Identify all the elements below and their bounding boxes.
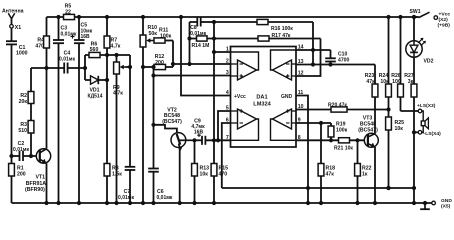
svg-text:4700: 4700 (338, 58, 349, 64)
pin 4 number (226, 90, 229, 96)
svg-text:470: 470 (35, 44, 44, 50)
capacitor C10 4700 (325, 50, 349, 67)
wire bottom ground rail (12, 202, 432, 204)
wire VT2 emitter down (178, 147, 182, 205)
wire R9 wiper to C7 column (126, 65, 133, 69)
pin 14 number (298, 45, 304, 51)
pin 6 number (226, 118, 229, 124)
capacitor C1 1000 (6, 41, 28, 56)
junction detector node y68 (44, 66, 48, 70)
junction R9 top (114, 53, 118, 57)
capacitor C3 0,01мк (53, 15, 77, 43)
svg-text:4,7к: 4,7к (113, 91, 123, 97)
resistor R13 10к (192, 140, 210, 205)
pin 5 number (226, 106, 229, 112)
svg-text:3: 3 (226, 70, 229, 76)
trimmer R9 4,7к (113, 55, 126, 203)
svg-text:–LS(X4): –LS(X4) (423, 131, 442, 137)
label GND pin11 (281, 94, 293, 100)
label +Vcc pin4 (234, 94, 246, 100)
wire VD1 R6 loop left (84, 55, 86, 80)
wire pin 3 net (154, 75, 231, 77)
wire R6 node to R9 (107, 54, 130, 56)
svg-text:7: 7 (226, 135, 229, 141)
junction R19 bottom pin8 line (329, 138, 333, 142)
svg-text:470: 470 (219, 171, 228, 177)
op-amp A3 output route to pin7 (231, 119, 259, 140)
label DA1 LM324 (253, 95, 271, 108)
junction VT1 emitter ground (44, 201, 48, 205)
svg-text:R17 47к: R17 47к (272, 33, 291, 39)
wire R16 right down to pin13 (311, 22, 315, 67)
terminal X1 (10, 25, 22, 31)
svg-text:Антенна: Антенна (2, 9, 24, 15)
svg-text:(BC547): (BC547) (162, 119, 182, 125)
wire C8R14 right column down to pin1 and C9 line (212, 20, 216, 203)
wire C3 to ground rail (56, 43, 60, 205)
junction pin3 column (151, 73, 155, 77)
wire to pin 2 (173, 63, 231, 65)
svg-text:0,01мк: 0,01мк (59, 57, 75, 63)
pin 1 number (226, 47, 229, 53)
wire R26 to +LS X3 (401, 110, 419, 112)
resistor R4 470 (35, 17, 49, 68)
junction VT2 base tap (151, 123, 155, 127)
svg-text:+LS(X3): +LS(X3) (417, 103, 436, 109)
op-amp A4 triangle (273, 109, 297, 129)
resistor R16 100к (214, 19, 313, 32)
junction R9 bottom ground (114, 201, 118, 205)
wire pin 6 L to ground link (222, 123, 231, 188)
resistor R11 100к (154, 28, 172, 44)
wire X1 to C1 (11, 28, 13, 41)
svg-text:GND: GND (441, 198, 452, 204)
svg-text:DA1: DA1 (256, 95, 267, 101)
capacitor C2 0,01мк (13, 141, 29, 161)
resistor R7 4,7к on rail column (104, 15, 121, 203)
terminal X3 +LS (417, 103, 436, 113)
junction C8 left column pin2 (187, 62, 191, 66)
capacitor C4 0,01мк (59, 51, 75, 74)
transistor VT1 BFR91A (25, 149, 51, 193)
svg-text:+Vcc: +Vcc (439, 11, 451, 17)
wire C4 to VD1 node (68, 67, 85, 69)
junction R22 tap (355, 138, 359, 142)
resistor R27 3к (404, 57, 417, 132)
diode VD1 КД514 (85, 76, 107, 100)
transistor VT2 BC548 (162, 108, 194, 152)
svg-text:16В: 16В (194, 130, 204, 136)
resistor R17 47к (214, 33, 321, 41)
terminal X2 +Vcc (434, 11, 450, 28)
svg-text:R14 1М: R14 1М (192, 43, 210, 49)
resistor R14 1М (187, 36, 214, 49)
op-amp A4 output route to pin8 (271, 119, 297, 140)
junction R10 bottom rail (141, 201, 145, 205)
op-amp A1 output route to pin1 (231, 52, 259, 70)
junction pin2 wire corner (171, 62, 175, 66)
svg-text:560: 560 (90, 47, 99, 53)
svg-text:5: 5 (226, 106, 229, 112)
wire +Vcc feed to pin 4 (179, 15, 231, 96)
pin 12 number (298, 71, 304, 77)
wire detector node (31, 67, 64, 69)
resistor R5 22 (64, 4, 75, 20)
svg-text:(+9В): (+9В) (438, 23, 451, 29)
pin 10 number (298, 104, 304, 110)
wire pin 14 net (296, 49, 331, 51)
node Антенна label (2, 9, 24, 15)
op-amp A2 triangle (273, 60, 297, 80)
trimmer R10 50к (140, 15, 157, 203)
svg-text:1к: 1к (362, 171, 368, 177)
svg-text:SW1: SW1 (410, 9, 421, 15)
pin 7 number (226, 135, 229, 141)
speaker LS (421, 111, 428, 132)
svg-text:100к: 100к (336, 127, 348, 133)
svg-text:2: 2 (226, 59, 229, 65)
capacitor C7 0,01мк (118, 167, 135, 205)
resistor R12 200 (143, 54, 173, 70)
wire R11 to R10 wiper arrow (146, 38, 154, 42)
wire pin 5 L (216, 111, 231, 142)
wire pin 10 net (296, 109, 389, 111)
wire R17 right down to pin12 (296, 39, 321, 77)
resistor R15 470 (211, 164, 228, 206)
junction R6 right (105, 53, 109, 57)
junction C9 right R15 tap (212, 138, 216, 142)
op-amp A3 triangle (231, 109, 257, 129)
pin 11 number (298, 90, 304, 96)
svg-text:КД514: КД514 (88, 94, 103, 100)
wire ground link line (222, 186, 414, 190)
capacitor C9 4,7мк 16В (191, 118, 230, 145)
antenna X1 symbol (8, 13, 14, 24)
svg-text:VT1: VT1 (36, 174, 46, 180)
wire pin3 column down (153, 67, 155, 169)
resistor R2 20к (19, 92, 34, 105)
wire pin 8 net (296, 139, 339, 141)
svg-text:VD2: VD2 (424, 59, 434, 65)
op-amp DA1 LM324 package (231, 47, 297, 148)
pin 3 number (226, 70, 229, 76)
svg-text:47к: 47к (366, 79, 375, 85)
svg-text:0,01мк: 0,01мк (13, 147, 29, 153)
junction C4 VD1 node (83, 66, 87, 70)
svg-text:GND: GND (281, 94, 293, 100)
op-amp A1 triangle (231, 60, 257, 80)
svg-text:(BFR90): (BFR90) (25, 187, 45, 193)
junction pin1 tap (212, 50, 231, 54)
svg-text:R20 47к: R20 47к (328, 102, 347, 108)
pin 13 number (298, 59, 304, 65)
wire R2R3 branch (30, 68, 32, 156)
wire VT1 emitter down (46, 163, 48, 203)
svg-text:200: 200 (155, 60, 164, 66)
svg-text:22: 22 (65, 10, 71, 16)
svg-text:R21 10к: R21 10к (334, 145, 353, 151)
svg-text:0,01мк: 0,01мк (157, 195, 173, 201)
capacitor C5 10мк 16В (71, 15, 93, 43)
resistor R20 47к (328, 102, 347, 112)
svg-text:510: 510 (18, 128, 27, 134)
svg-text:1000: 1000 (16, 50, 28, 56)
svg-text:4: 4 (226, 90, 229, 96)
svg-text:100: 100 (392, 79, 401, 85)
resistor R6 560 (85, 41, 107, 57)
junction R18 tap (319, 121, 323, 125)
wire C5 to ground rail (77, 43, 81, 205)
resistor R3 510 (18, 121, 34, 135)
resistor R24 10к (379, 15, 392, 112)
svg-text:16В: 16В (81, 34, 91, 40)
resistor R21 10к (334, 138, 369, 152)
svg-text:(X2): (X2) (439, 17, 449, 23)
wire C1 down to base node (11, 44, 13, 156)
svg-text:10к: 10к (395, 126, 404, 132)
svg-text:X1: X1 (15, 25, 21, 31)
terminal X4 -LS (418, 131, 441, 138)
wire VT1 collector up (46, 68, 48, 149)
wire C7 column (129, 55, 131, 167)
junction R3 base (29, 154, 33, 158)
svg-text:6: 6 (226, 118, 229, 124)
wire VT2 base jog (154, 125, 177, 134)
wire C2 to VT1 base (23, 155, 40, 157)
wire X4 to ground link (412, 130, 418, 205)
svg-text:1: 1 (226, 47, 229, 53)
junction base-left node (9, 154, 13, 158)
pin 9 number (298, 118, 301, 124)
resistor R19 100к (328, 121, 348, 140)
svg-text:50к: 50к (149, 31, 158, 37)
svg-text:R16 100к: R16 100к (271, 26, 293, 32)
wire C8 loop left column (189, 22, 191, 64)
wire R11 right down (165, 41, 173, 68)
resistor R23 47к (365, 65, 378, 98)
svg-text:3к: 3к (408, 79, 414, 85)
wire top supply rail (47, 16, 419, 18)
diode VD2 LED (406, 15, 434, 65)
resistor R1 200 (9, 156, 26, 203)
junction VD1 cathode (105, 78, 109, 82)
svg-text:47к: 47к (326, 171, 335, 177)
capacitor C6 0,01мк (148, 169, 173, 206)
capacitor C8 0,01мк (190, 18, 215, 37)
resistor R18 47к (318, 123, 335, 205)
svg-text:10к: 10к (200, 171, 209, 177)
svg-text:20к: 20к (19, 99, 28, 105)
wire pin 13 net (296, 64, 375, 66)
pin 8 number (298, 135, 301, 141)
pin 2 number (226, 59, 229, 65)
svg-text:0,01мк: 0,01мк (118, 195, 134, 201)
svg-text:(X5): (X5) (441, 204, 451, 210)
junction R12 left (141, 65, 156, 69)
svg-text:200: 200 (17, 171, 26, 177)
wire pin11 ground column (296, 96, 310, 206)
junction R14 right (212, 36, 216, 40)
resistor R26 100 (391, 15, 403, 111)
junction C9 left R13 (192, 138, 196, 142)
wire VT3 emitter down (373, 147, 377, 205)
ground symbol (420, 201, 430, 209)
terminal X5 GND (432, 198, 453, 210)
wire pin 9 net (296, 122, 331, 124)
svg-text:LM324: LM324 (253, 102, 271, 108)
wire VT3 collector up to R23 (374, 97, 376, 134)
resistor R22 1к (355, 140, 372, 205)
resistor R25 10к (386, 110, 405, 191)
op-amp A2 output route to pin14 (271, 50, 297, 70)
wire to C2 (12, 155, 20, 157)
svg-text:100к: 100к (160, 33, 172, 39)
svg-text:4,7к: 4,7к (111, 44, 121, 50)
switch SW1 (410, 9, 430, 19)
resistor R8 1,5к (104, 164, 122, 206)
transistor VT3 BC548 (358, 116, 378, 148)
svg-text:10к: 10к (380, 79, 389, 85)
svg-text:+Vcc: +Vcc (234, 94, 246, 100)
